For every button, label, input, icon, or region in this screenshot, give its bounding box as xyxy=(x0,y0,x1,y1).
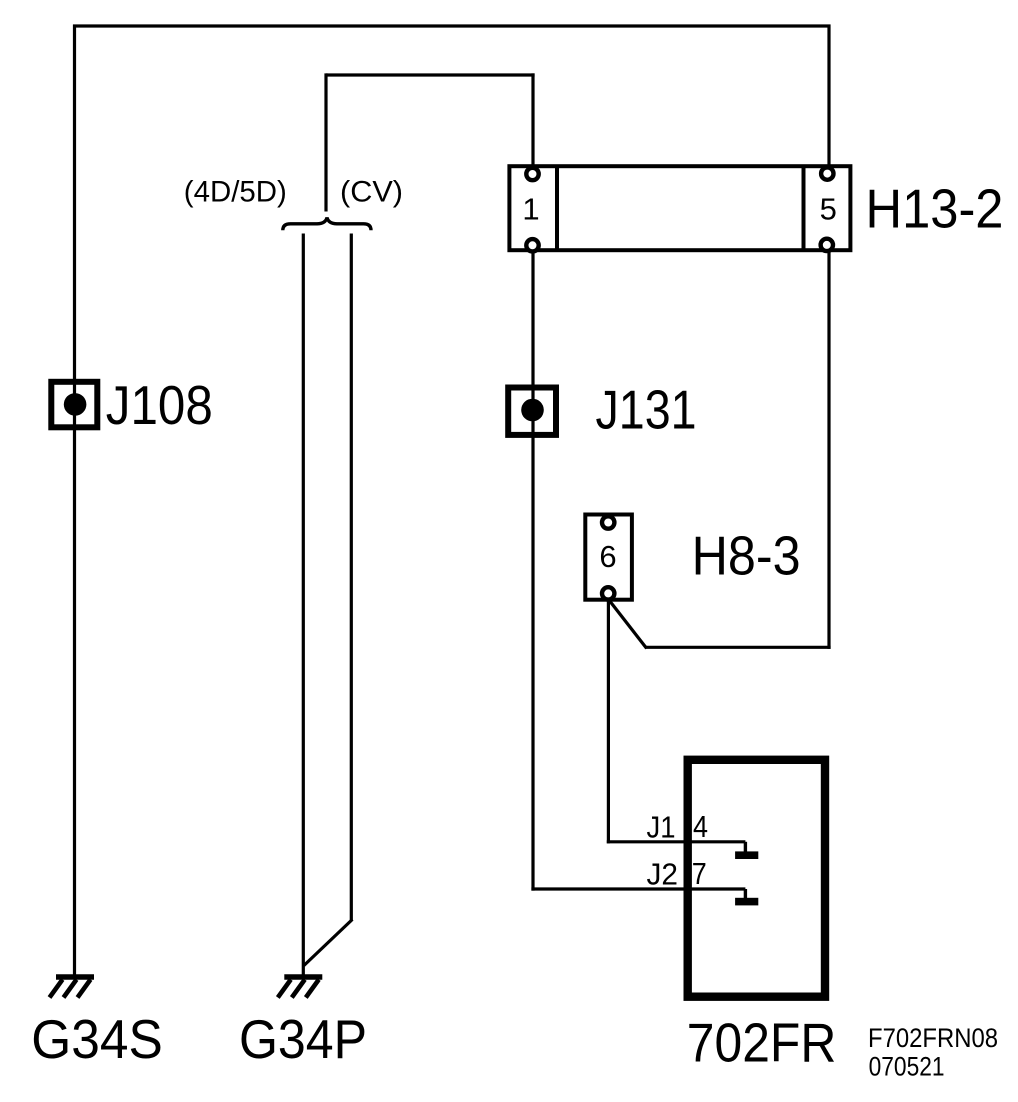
wire: vertical x=533 from H13-2 pin 1 down through J131 to J2 row xyxy=(531,250,534,891)
wire: top horizontal bus xyxy=(73,24,831,27)
svg-text:F702FRN08: F702FRN08 xyxy=(868,1023,998,1053)
svg-text:J1: J1 xyxy=(647,810,676,845)
wire: vertical x=533 from bus to H13-2 pin 1 xyxy=(531,73,534,167)
connector H13-2 xyxy=(509,166,850,252)
ground G34S xyxy=(50,977,95,998)
svg-text:G34P: G34P xyxy=(239,1008,367,1070)
svg-text:1: 1 xyxy=(522,192,539,227)
svg-text:H13-2: H13-2 xyxy=(866,178,1004,240)
wire: second horizontal bus y=75 xyxy=(326,73,535,76)
wire: right vertical from H13-2 pin 5 down xyxy=(827,250,830,649)
svg-text:7: 7 xyxy=(692,856,707,891)
pin 5 top hole xyxy=(821,167,833,179)
wire: (CV) branch vertical xyxy=(350,234,353,921)
svg-text:J131: J131 xyxy=(596,379,697,441)
svg-text:(4D/5D): (4D/5D) xyxy=(184,176,287,209)
svg-text:J2: J2 xyxy=(647,857,679,892)
connector 702FR box xyxy=(688,760,825,997)
pin terminal at 702FR pin 7 xyxy=(744,889,747,899)
pin 1 bottom hole xyxy=(526,239,538,251)
svg-text:4: 4 xyxy=(693,809,708,844)
pin terminal at 702FR pin 4 xyxy=(744,842,747,852)
svg-text:6: 6 xyxy=(599,539,616,574)
brace (variant split) xyxy=(283,218,371,231)
svg-text:(CV): (CV) xyxy=(340,176,403,209)
svg-text:J108: J108 xyxy=(106,374,213,436)
wire: diagonal up to H8-3 pin 6 xyxy=(608,599,647,649)
svg-text:5: 5 xyxy=(820,191,837,226)
svg-text:702FR: 702FR xyxy=(687,1012,837,1074)
wire: J2 horizontal into 702FR xyxy=(531,887,745,890)
wire: right vertical from top bus to H13-2 pin 5 xyxy=(827,25,830,168)
junction J131 xyxy=(508,388,556,435)
ground G34P xyxy=(278,977,323,998)
svg-text:G34S: G34S xyxy=(31,1008,163,1070)
junction J108 xyxy=(51,382,97,428)
wire: (CV) diagonal joining G34P wire xyxy=(304,919,353,965)
pin 5 bottom hole xyxy=(821,239,833,251)
wire: vertical x=326 down to brace xyxy=(324,73,327,211)
wire: J1 horizontal into 702FR xyxy=(607,840,746,843)
connector H8-3 xyxy=(585,515,632,600)
wire: (4D/5D) branch vertical to G34P xyxy=(302,234,305,978)
pin 1 top hole xyxy=(526,168,538,180)
svg-text:H8-3: H8-3 xyxy=(692,525,801,587)
svg-text:070521: 070521 xyxy=(869,1052,945,1082)
wire: horizontal at y=647 xyxy=(646,646,831,649)
wire: left vertical to G34S xyxy=(73,25,76,978)
wire: vertical from H8-3 pin down to J1 row xyxy=(607,597,610,843)
